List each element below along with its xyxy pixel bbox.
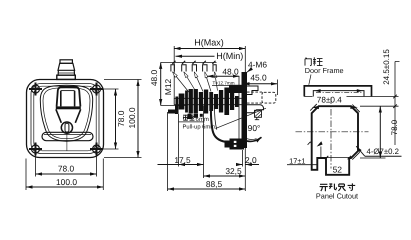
svg-text:32,5: 32,5 xyxy=(225,166,242,176)
wing lever xyxy=(168,105,179,115)
svg-text:88,5: 88,5 xyxy=(206,179,223,189)
dimension 48.0 horizontal xyxy=(207,67,239,77)
dimension 32,5 xyxy=(204,166,246,176)
dimension 78±0.4 xyxy=(312,95,358,109)
90 degree label xyxy=(248,123,261,133)
svg-text:2,0: 2,0 xyxy=(245,155,257,165)
centerline below lock xyxy=(66,133,68,151)
4-M6 label xyxy=(247,60,268,73)
svg-text:4-Ø7±0.2: 4-Ø7±0.2 xyxy=(367,147,399,156)
open pawl dashed xyxy=(247,92,276,103)
bracket behind flange xyxy=(247,86,258,95)
lock cylinder xyxy=(61,122,72,133)
corner screw top-left xyxy=(29,83,42,96)
svg-text:48.0: 48.0 xyxy=(222,67,239,77)
extension line with oblique ticks xyxy=(161,61,217,64)
svg-text:Pull-up 6mm: Pull-up 6mm xyxy=(183,123,216,130)
svg-text:78±0.4: 78±0.4 xyxy=(317,95,342,104)
door frame label xyxy=(305,57,344,85)
mounting flange side xyxy=(239,72,247,148)
cam block xyxy=(225,139,245,150)
cam arm closed xyxy=(211,103,230,142)
nut and washer stack xyxy=(176,88,239,120)
channel arrows xyxy=(315,89,363,92)
pawl swing line xyxy=(216,108,267,128)
dimension 78.0 right xyxy=(116,89,127,149)
label 4-Ø7±0.2 xyxy=(356,146,401,156)
mid pawl solid xyxy=(247,105,264,120)
dimension 78.0 vertical xyxy=(360,106,399,158)
svg-text:Door Frame: Door Frame xyxy=(305,66,344,75)
extension line shaft end xyxy=(173,46,175,99)
svg-text:78.0: 78.0 xyxy=(58,163,75,173)
svg-text:Panel Cutout: Panel Cutout xyxy=(316,192,358,201)
keeper block xyxy=(229,85,242,93)
svg-text:78.0: 78.0 xyxy=(390,119,399,135)
corner ear lines xyxy=(310,104,360,160)
pull-up note xyxy=(179,115,216,131)
cutout centerlines xyxy=(296,98,369,169)
rotation arrow xyxy=(246,137,262,141)
threaded shaft xyxy=(174,98,241,104)
panel cutout title EN xyxy=(316,192,358,201)
extension lines bottom xyxy=(26,153,103,190)
cutout outline xyxy=(312,106,358,175)
extension lines bottom middle xyxy=(168,106,243,192)
extension lines right xyxy=(101,80,142,158)
svg-text:100.0: 100.0 xyxy=(127,107,137,128)
latch flange outer outline xyxy=(27,80,104,158)
left edge break mark and leader arrow xyxy=(308,141,323,157)
svg-text:45.0: 45.0 xyxy=(250,72,267,82)
M12 label xyxy=(163,79,173,96)
T=12.7mm note xyxy=(212,80,240,85)
handle grip xyxy=(56,87,81,123)
dimension 2,0 xyxy=(236,155,259,165)
recess pocket inner xyxy=(43,88,90,139)
leader fan to shaft parts xyxy=(173,72,218,94)
svg-text:4-M6: 4-M6 xyxy=(248,60,267,70)
H(Min) dimension xyxy=(176,50,246,61)
dimension 17,5 xyxy=(158,155,204,165)
door frame inner channel xyxy=(313,91,364,97)
extension line flange face xyxy=(244,46,246,191)
dimension 78.0 bottom xyxy=(36,163,97,174)
svg-text:24.5±0.15: 24.5±0.15 xyxy=(382,49,391,85)
svg-text:100.0: 100.0 xyxy=(56,177,77,187)
recess pocket outer xyxy=(40,85,92,141)
dimension 48.0 vertical xyxy=(149,62,186,105)
corner screw top-right xyxy=(90,83,103,96)
door frame outer profile xyxy=(304,86,371,97)
dimension 45.0 xyxy=(243,72,277,95)
panel cutout title CJK xyxy=(320,183,356,191)
svg-text:H(Min): H(Min) xyxy=(216,51,243,61)
top shaft protrusion xyxy=(57,60,76,80)
svg-text:90°: 90° xyxy=(248,123,261,133)
handle bottom bar xyxy=(42,132,93,140)
corner screw bottom-left xyxy=(29,143,42,156)
dimension 100.0 right xyxy=(127,80,138,158)
hook brackets xyxy=(171,65,216,72)
svg-text:52: 52 xyxy=(333,165,343,175)
H(Max) dimension xyxy=(174,38,245,49)
dimension 17±1 xyxy=(287,157,317,166)
latch flange inner outline xyxy=(31,84,99,154)
svg-text:H(Max): H(Max) xyxy=(194,38,224,48)
channel centerline xyxy=(316,91,362,93)
svg-text:78.0: 78.0 xyxy=(116,110,126,127)
dimension 88,5 xyxy=(168,179,246,189)
svg-text:M12: M12 xyxy=(163,79,173,96)
corner screw bottom-right xyxy=(90,143,103,156)
dimension 52 xyxy=(325,156,351,175)
svg-text:17,5: 17,5 xyxy=(174,155,191,165)
dimension 24.5±0.15 xyxy=(382,49,400,145)
svg-text:48.0: 48.0 xyxy=(149,70,159,87)
dimension 100.0 bottom xyxy=(26,177,103,187)
panel surface line xyxy=(304,96,398,98)
svg-text:T=12.7mm: T=12.7mm xyxy=(213,80,235,85)
